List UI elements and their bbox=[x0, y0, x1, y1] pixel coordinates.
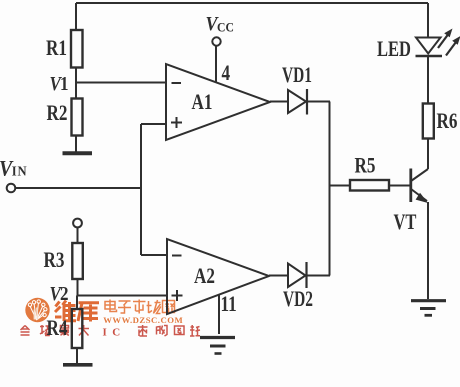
op-amp A2 bbox=[167, 239, 269, 314]
svg-text:R6: R6 bbox=[437, 109, 458, 134]
diode VD2 bbox=[288, 264, 306, 288]
svg-text:A1: A1 bbox=[192, 90, 213, 115]
wire junction to R5 bbox=[330, 185, 351, 187]
resistor R6 bbox=[423, 104, 434, 139]
wire VD2 to output junction bbox=[307, 275, 331, 277]
wire A2 output to VD2 bbox=[269, 275, 288, 277]
wire V1 to R2 bbox=[75, 83, 77, 99]
svg-text:V1: V1 bbox=[50, 73, 69, 96]
wire bus to A1 non-inverting input bbox=[141, 123, 166, 125]
svg-text:WWW.DZSC.COM: WWW.DZSC.COM bbox=[103, 315, 183, 325]
svg-text:VIN: VIN bbox=[0, 156, 28, 181]
wire VD1 to output junction bbox=[307, 101, 330, 103]
watermark bbox=[21, 298, 201, 339]
wire top rail bbox=[76, 2, 428, 4]
wire V1 to A1 inverting input bbox=[76, 82, 166, 84]
wire top rail to LED bbox=[427, 3, 429, 38]
svg-text:R3: R3 bbox=[44, 248, 65, 273]
svg-text:VT: VT bbox=[394, 211, 417, 235]
wire R4 to ground bbox=[76, 348, 78, 363]
ground under R4 bbox=[63, 363, 93, 367]
wire R3 to node V2 bbox=[77, 279, 79, 296]
terminal VIN bbox=[7, 184, 16, 193]
svg-text:11: 11 bbox=[221, 292, 237, 317]
svg-text:4: 4 bbox=[222, 61, 231, 86]
svg-text:R1: R1 bbox=[46, 36, 67, 61]
terminal above R3 bbox=[73, 219, 82, 228]
svg-text:VD2: VD2 bbox=[283, 287, 313, 311]
wire top rail to R1 bbox=[75, 3, 77, 30]
wire R1 to node V1 bbox=[75, 68, 77, 84]
svg-text:R5: R5 bbox=[355, 154, 376, 179]
svg-text:A2: A2 bbox=[194, 264, 215, 289]
resistor R1 bbox=[71, 30, 83, 68]
wire V2 to A2 non-inverting input bbox=[77, 295, 167, 297]
svg-text:R4: R4 bbox=[47, 316, 68, 341]
wire input bus vertical bbox=[140, 124, 142, 255]
diode VD1 bbox=[288, 90, 306, 113]
wire R2 to ground bbox=[75, 136, 77, 152]
ground under A2 bbox=[200, 336, 235, 339]
svg-text:R2: R2 bbox=[47, 101, 68, 126]
wire R5 to VT base bbox=[389, 185, 411, 187]
wire V2 to R4 bbox=[76, 296, 78, 310]
transistor VT bbox=[409, 169, 412, 203]
wire VT collector to R6 bbox=[427, 139, 429, 170]
wire A1 output to VD1 bbox=[270, 101, 288, 103]
resistor R4 bbox=[72, 309, 83, 348]
resistor R3 bbox=[72, 243, 83, 279]
wire R6 to LED bbox=[427, 57, 429, 104]
svg-text:VD1: VD1 bbox=[282, 63, 312, 87]
wire pin 4 of A1 to VCC bbox=[215, 46, 217, 83]
op-amp A1 bbox=[166, 64, 270, 140]
wire bus to A2 inverting input bbox=[141, 254, 167, 256]
wire pin 11 of A2 to ground bbox=[218, 295, 220, 334]
ground under R2 bbox=[63, 151, 93, 155]
wire output junction vertical bbox=[329, 102, 331, 276]
power terminal VCC bbox=[212, 37, 220, 45]
svg-text:V2: V2 bbox=[50, 283, 69, 306]
svg-text:LED: LED bbox=[377, 38, 411, 62]
wire terminal to R3 bbox=[77, 227, 79, 243]
resistor R2 bbox=[72, 99, 83, 136]
svg-text:IC: IC bbox=[103, 327, 126, 339]
ground under VT bbox=[411, 299, 446, 302]
resistor R5 bbox=[350, 180, 389, 191]
svg-text:VCC: VCC bbox=[206, 13, 234, 35]
wire VT emitter to ground bbox=[427, 202, 429, 299]
LED bbox=[416, 38, 441, 54]
wire VIN to input bus bbox=[15, 187, 141, 189]
